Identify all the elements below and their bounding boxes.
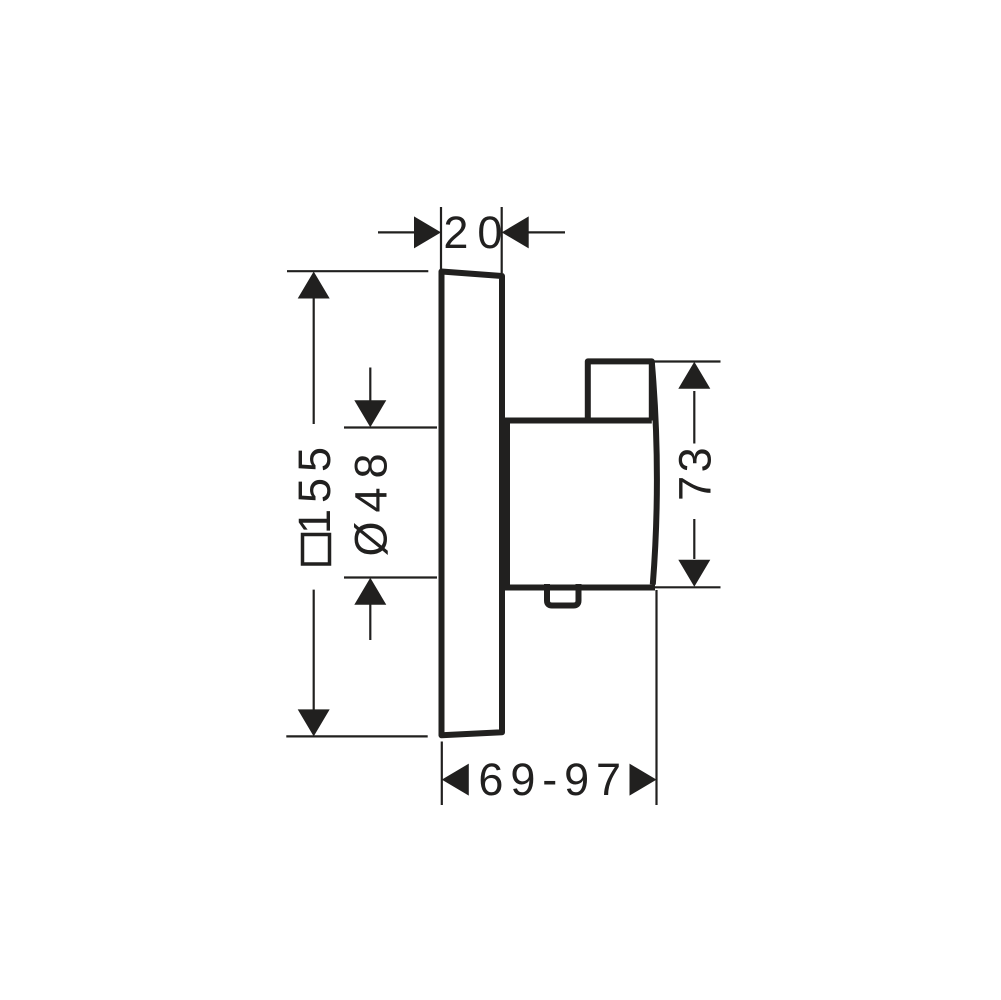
valve body bottom line [504, 585, 655, 591]
svg-text:73: 73 [669, 444, 720, 501]
valve body top line [504, 418, 652, 424]
dim 73: extension lines [652, 362, 721, 588]
dim 20: extension lines [378, 207, 565, 273]
dim 69-97: extension lines [442, 590, 657, 805]
bottom notch tab [547, 584, 579, 606]
valve body left edge [504, 418, 510, 591]
svg-text:Ø48: Ø48 [346, 444, 397, 556]
svg-text:69-97: 69-97 [478, 754, 628, 805]
escutcheon plate (side view) [442, 272, 503, 736]
dim 155: extension lines [286, 271, 428, 736]
top square boss [588, 361, 652, 420]
dim 20: arrows [414, 216, 529, 248]
dim 48: extension lines [344, 368, 437, 641]
svg-text:155: 155 [289, 441, 340, 534]
dim 48: arrows [354, 400, 386, 605]
svg-text:20: 20 [443, 207, 511, 258]
bulged right edge of body [652, 362, 657, 585]
dim 73: arrows [678, 362, 710, 587]
dim 69-97: arrows [442, 764, 657, 796]
dim 155: arrows [298, 272, 330, 737]
